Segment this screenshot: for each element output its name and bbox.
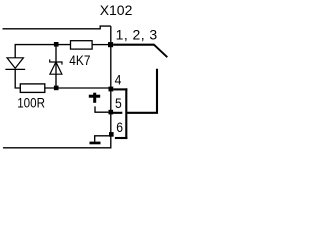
wire row2 100R to pin 4	[45, 87, 109, 89]
switch blade diagonal	[154, 44, 168, 57]
node pin 4	[109, 87, 114, 92]
wire diode to 100R	[15, 69, 20, 88]
switch contact vertical and pin5 feed	[126, 69, 157, 113]
node pin 1,2,3	[108, 42, 113, 47]
connector bracket bottom edge	[115, 137, 127, 139]
switch common line	[113, 44, 154, 46]
svg-text:5: 5	[115, 95, 122, 111]
svg-text:4: 4	[115, 72, 122, 88]
capacitor negative lead wire from pin 6 net	[95, 136, 111, 142]
connector bracket pin4 stub	[113, 88, 127, 90]
node pin 5	[109, 110, 114, 115]
svg-text:X102: X102	[100, 2, 133, 18]
connector bracket right edge	[125, 88, 127, 139]
diode D1	[5, 58, 25, 70]
resistor 4K7	[71, 41, 93, 49]
svg-text:100R: 100R	[17, 94, 45, 110]
svg-text:6: 6	[116, 119, 123, 135]
svg-text:4K7: 4K7	[69, 52, 90, 68]
svg-text:1, 2, 3: 1, 2, 3	[116, 27, 158, 43]
pin 5 stub	[113, 112, 122, 114]
main vertical net and bottom rail	[3, 26, 111, 148]
resistor 100R	[20, 84, 45, 93]
capacitor positive lead wire to pin 5	[95, 106, 109, 112]
wire 4K7 to pin 1,2,3	[93, 44, 109, 46]
zener diode Z1	[50, 47, 62, 86]
node pin 6	[109, 132, 114, 137]
node junction zener bottom	[54, 86, 59, 91]
capacitor negative plate bar	[90, 142, 101, 145]
node junction zener top	[54, 42, 59, 47]
wire row1 left corner to 4K7	[15, 45, 70, 58]
capacitor C1 plus symbol	[89, 93, 100, 103]
wire top rail with jog	[3, 26, 111, 29]
